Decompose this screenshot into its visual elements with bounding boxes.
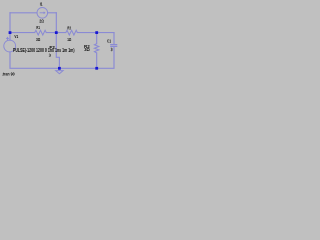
svg-text:1µ: 1µ <box>111 46 113 51</box>
wire from C1 bottom plate down to bottom-right corner <box>97 47 114 69</box>
svg-text:3Ω: 3Ω <box>84 47 90 52</box>
wire left vertical from top corner down to V1 <box>9 13 11 40</box>
svg-text:PULSE(-1200 1200 0 1ns 1ns 1m: PULSE(-1200 1200 0 1ns 1ns 1m 1m) <box>13 48 75 54</box>
resistor R3 <box>66 30 78 35</box>
svg-text:R1: R1 <box>36 25 40 30</box>
wire top-left horizontal from corner to I1 <box>10 12 37 14</box>
svg-text:2Ω: 2Ω <box>39 18 44 23</box>
junction node at V1 branch <box>9 31 12 34</box>
svg-text:C1: C1 <box>107 39 111 44</box>
junction node R2 bottom <box>95 67 98 70</box>
voltage source V1 <box>4 37 16 52</box>
junction node ground <box>58 67 61 70</box>
wire between R1 and R3 <box>46 32 66 34</box>
wire R2 bottom lead <box>96 53 98 68</box>
junction node R2 top <box>95 31 98 34</box>
wire middle branch with jog down to ground node <box>56 33 59 69</box>
wire bottom from R2 foot to left corner and up to V1 <box>10 52 97 68</box>
current source I1 <box>37 8 48 19</box>
svg-text:I1: I1 <box>40 2 43 7</box>
wire right vertical from corner to C1 top plate <box>113 33 115 45</box>
wire mid-left horizontal from V1 branch node to R1 <box>10 32 35 34</box>
capacitor C1 <box>110 45 117 47</box>
resistor R1 <box>35 30 47 35</box>
ground <box>56 68 63 73</box>
svg-text:F2: F2 <box>49 45 55 50</box>
svg-text:1Ω: 1Ω <box>67 37 71 42</box>
wire R2 top lead <box>96 33 98 44</box>
junction node middle top <box>55 31 58 34</box>
resistor R2 vertical <box>94 44 98 53</box>
svg-text:V1: V1 <box>14 34 18 40</box>
svg-text:3Ω: 3Ω <box>36 37 41 42</box>
svg-text:.tran 90: .tran 90 <box>2 71 15 77</box>
wire vertical drop from top wire to middle node <box>55 13 57 33</box>
svg-text:R3: R3 <box>67 25 71 30</box>
wire from R3 to right corner <box>77 32 114 34</box>
wire from I1 to middle drop <box>48 12 57 14</box>
svg-text:1s: 1s <box>49 53 52 58</box>
